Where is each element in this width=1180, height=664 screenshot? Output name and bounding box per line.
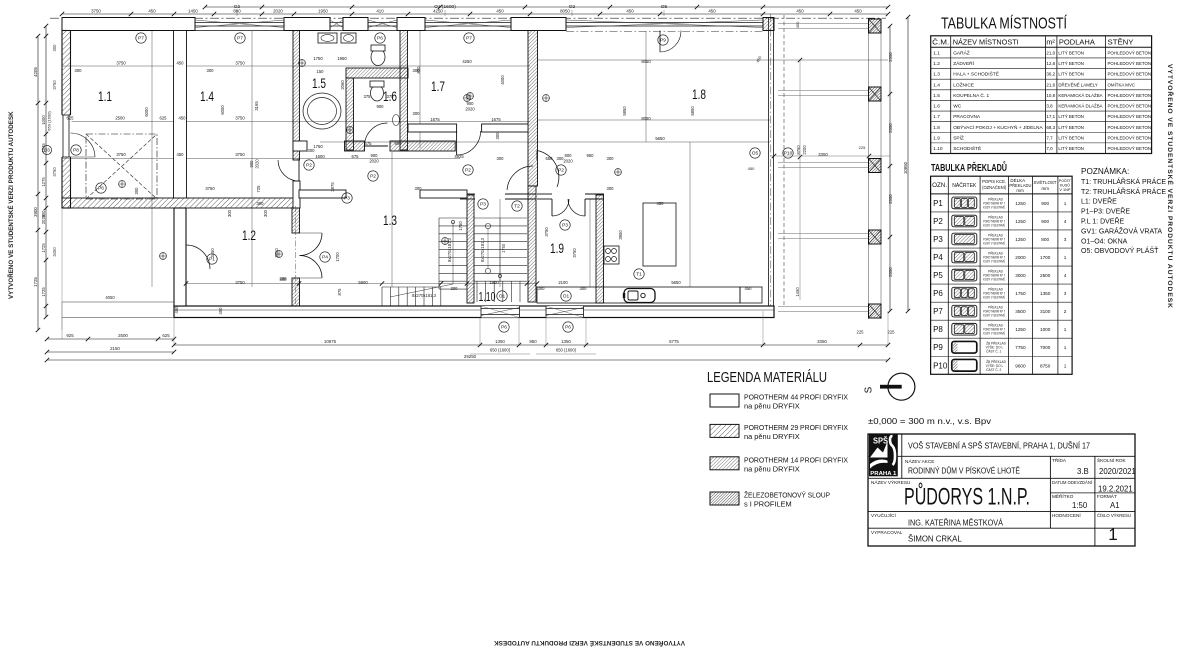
svg-text:17,1: 17,1 <box>1046 114 1055 119</box>
svg-text:POHLEDOVÝ BETON: POHLEDOVÝ BETON <box>1108 51 1152 56</box>
svg-text:1.5: 1.5 <box>312 75 326 91</box>
svg-text:KOUPELNA Č. 1: KOUPELNA Č. 1 <box>953 92 989 99</box>
svg-text:68,3: 68,3 <box>1046 125 1055 130</box>
svg-text:P8: P8 <box>73 148 79 154</box>
svg-text:3750: 3750 <box>116 61 126 66</box>
svg-text:1750: 1750 <box>1015 291 1026 296</box>
svg-text:POHLEDOVÝ BETON: POHLEDOVÝ BETON <box>1108 114 1152 119</box>
svg-text:KUSY V SESTAVĚ: KUSY V SESTAVĚ <box>983 240 1005 245</box>
svg-text:1.1: 1.1 <box>98 88 112 104</box>
svg-text:P2: P2 <box>370 174 376 180</box>
svg-text:1.10: 1.10 <box>933 146 943 152</box>
svg-text:1: 1 <box>1064 201 1067 206</box>
svg-text:3750: 3750 <box>235 116 245 121</box>
svg-text:2200: 2200 <box>802 145 807 155</box>
svg-text:1750: 1750 <box>501 243 506 253</box>
svg-text:T1: TRUHLÁŘSKÁ PRÁCE: T1: TRUHLÁŘSKÁ PRÁCE <box>1081 177 1166 186</box>
svg-text:300: 300 <box>75 68 83 73</box>
svg-text:GV1: GARÁŽOVÁ VRATA: GV1: GARÁŽOVÁ VRATA <box>1081 226 1162 235</box>
svg-text:650 (1600): 650 (1600) <box>47 111 52 131</box>
svg-text:1700: 1700 <box>335 252 340 262</box>
svg-text:2500: 2500 <box>118 333 128 338</box>
svg-text:725: 725 <box>256 185 261 193</box>
svg-text:1: 1 <box>1064 327 1067 332</box>
svg-text:s I PROFILEM: s I PROFILEM <box>744 500 792 509</box>
svg-text:3450: 3450 <box>210 248 215 258</box>
svg-text:3750: 3750 <box>91 9 101 14</box>
svg-text:2020: 2020 <box>465 107 475 112</box>
svg-text:na pěnu DRYFIX: na pěnu DRYFIX <box>744 402 800 411</box>
svg-text:450: 450 <box>854 9 862 14</box>
svg-text:2020/2021: 2020/2021 <box>1099 467 1136 476</box>
svg-text:6000: 6000 <box>144 107 149 117</box>
svg-text:10850: 10850 <box>903 161 908 174</box>
svg-text:TŘÍDA: TŘÍDA <box>1052 456 1067 463</box>
svg-text:6000: 6000 <box>220 105 225 115</box>
svg-text:21,6: 21,6 <box>1046 82 1055 87</box>
svg-text:ŠIMON CRKAL: ŠIMON CRKAL <box>908 535 962 544</box>
svg-text:1.4: 1.4 <box>200 88 214 104</box>
svg-text:7000: 7000 <box>1040 345 1051 350</box>
svg-text:1.7: 1.7 <box>933 114 940 120</box>
svg-text:P3: P3 <box>344 196 350 202</box>
svg-text:RODINNÝ DŮM V PÍSKOVÉ LHOTĚ: RODINNÝ DŮM V PÍSKOVÉ LHOTĚ <box>908 467 1020 476</box>
svg-text:KUSY V SESTAVĚ: KUSY V SESTAVĚ <box>983 331 1005 336</box>
svg-text:DATUM ODEVZDÁNÍ: DATUM ODEVZDÁNÍ <box>1052 479 1093 485</box>
svg-text:P7: P7 <box>237 36 243 42</box>
svg-text:O1: O1 <box>499 294 506 300</box>
svg-text:950: 950 <box>529 339 537 344</box>
svg-text:8050: 8050 <box>560 9 570 14</box>
svg-text:300: 300 <box>257 201 265 206</box>
svg-text:3900: 3900 <box>618 230 623 240</box>
svg-text:VYUČUJÍCÍ: VYUČUJÍCÍ <box>871 512 896 518</box>
svg-text:POZNÁMKA:: POZNÁMKA: <box>1081 166 1129 176</box>
svg-text:900: 900 <box>371 153 379 158</box>
svg-text:3900: 3900 <box>33 207 38 217</box>
svg-text:OZN.: OZN. <box>932 183 947 189</box>
svg-text:P3: P3 <box>562 223 568 229</box>
svg-text:3750: 3750 <box>235 152 245 157</box>
svg-text:POHLEDOVÝ BETON: POHLEDOVÝ BETON <box>1108 125 1152 130</box>
svg-text:2550: 2550 <box>888 267 893 277</box>
svg-text:36,2: 36,2 <box>1046 72 1055 77</box>
svg-text:1675: 1675 <box>430 117 440 122</box>
svg-text:3750: 3750 <box>116 152 126 157</box>
svg-text:OBÝVACÍ POKOJ + KUCHYŇ + JÍDEL: OBÝVACÍ POKOJ + KUCHYŇ + JÍDELNA <box>953 124 1043 131</box>
svg-text:ŠKOLNÍ ROK: ŠKOLNÍ ROK <box>1097 457 1127 463</box>
svg-text:2020: 2020 <box>273 9 283 14</box>
svg-text:29250: 29250 <box>464 354 477 359</box>
svg-text:21,0: 21,0 <box>1046 51 1055 56</box>
svg-text:P1–P3: DVEŘE: P1–P3: DVEŘE <box>1081 207 1130 216</box>
svg-text:P2: P2 <box>465 168 471 174</box>
svg-text:O3: O3 <box>44 148 50 153</box>
svg-text:150: 150 <box>317 69 325 74</box>
svg-text:1.2: 1.2 <box>933 61 940 67</box>
svg-text:PŘEKLADU: PŘEKLADU <box>1009 181 1031 188</box>
svg-text:300: 300 <box>227 209 232 217</box>
svg-text:300: 300 <box>134 187 139 195</box>
svg-text:TABULKA MÍSTNOSTÍ: TABULKA MÍSTNOSTÍ <box>941 14 1067 33</box>
svg-text:LITÝ BETON: LITÝ BETON <box>1058 146 1084 151</box>
svg-text:O5: O5 <box>752 151 759 157</box>
svg-text:1350: 1350 <box>561 339 571 344</box>
svg-text:300: 300 <box>495 132 500 140</box>
svg-text:1:50: 1:50 <box>1072 501 1088 510</box>
svg-text:650 (1600): 650 (1600) <box>556 348 577 353</box>
svg-text:1.7: 1.7 <box>431 78 445 94</box>
svg-text:1.3: 1.3 <box>933 72 940 78</box>
svg-text:3.B: 3.B <box>1077 467 1089 476</box>
svg-text:800: 800 <box>1041 237 1049 242</box>
svg-text:1750: 1750 <box>458 221 463 231</box>
svg-text:m²: m² <box>1046 38 1055 47</box>
svg-text:P9: P9 <box>933 343 943 352</box>
svg-text:P10: P10 <box>933 361 948 370</box>
svg-text:P8: P8 <box>933 325 943 334</box>
svg-text:1350: 1350 <box>495 339 505 344</box>
svg-text:4000: 4000 <box>500 75 505 85</box>
svg-text:L1: DVEŘE: L1: DVEŘE <box>1081 197 1117 206</box>
svg-text:POPIS KCE.: POPIS KCE. <box>982 179 1006 185</box>
svg-text:4250: 4250 <box>433 9 443 14</box>
svg-text:1675: 1675 <box>491 117 501 122</box>
svg-text:mm: mm <box>1042 186 1050 191</box>
svg-text:P2: P2 <box>933 217 943 226</box>
svg-text:POHLEDOVÝ BETON: POHLEDOVÝ BETON <box>1108 104 1152 109</box>
svg-text:ČÁST Č. 2: ČÁST Č. 2 <box>986 367 1001 372</box>
svg-text:450: 450 <box>657 201 665 206</box>
svg-text:OMÍTKA MVC: OMÍTKA MVC <box>1108 82 1136 87</box>
svg-text:800: 800 <box>233 9 241 14</box>
svg-text:Č.M.: Č.M. <box>932 38 949 47</box>
svg-text:650: 650 <box>546 156 554 161</box>
svg-text:1.2: 1.2 <box>242 227 256 243</box>
svg-text:NÁČRTEK: NÁČRTEK <box>952 182 977 189</box>
svg-text:4205: 4205 <box>33 67 38 77</box>
svg-text:300: 300 <box>580 286 588 291</box>
svg-text:VYTVOŘENO VE STUDENTSKÉ VERZI: VYTVOŘENO VE STUDENTSKÉ VERZI PRODUKTU A… <box>1166 64 1175 309</box>
svg-text:450: 450 <box>174 306 179 314</box>
svg-text:POROTHERM 14 PROFI DRYFIX: POROTHERM 14 PROFI DRYFIX <box>744 455 848 464</box>
svg-text:KUSY V SESTAVĚ: KUSY V SESTAVĚ <box>983 295 1005 300</box>
svg-text:900: 900 <box>395 141 403 146</box>
svg-text:VOŠ STAVEBNÍ A SPŠ STAVEBNÍ, P: VOŠ STAVEBNÍ A SPŠ STAVEBNÍ, PRAHA 1, DU… <box>908 442 1090 451</box>
svg-text:2: 2 <box>1064 309 1067 314</box>
svg-text:4: 4 <box>1064 273 1067 278</box>
svg-text:LITÝ BETON: LITÝ BETON <box>1058 114 1084 119</box>
svg-text:WC: WC <box>953 104 962 110</box>
svg-text:KERAMICKÁ DLAŽBA: KERAMICKÁ DLAŽBA <box>1058 93 1102 98</box>
svg-text:PRACOVNA: PRACOVNA <box>953 114 981 120</box>
svg-text:19.2.2021: 19.2.2021 <box>1098 485 1133 494</box>
svg-text:450: 450 <box>796 9 804 14</box>
svg-text:P6: P6 <box>98 186 104 192</box>
svg-text:P9: P9 <box>660 38 666 44</box>
svg-text:A1: A1 <box>1110 501 1120 510</box>
svg-text:mm: mm <box>1016 188 1024 193</box>
svg-text:3750: 3750 <box>235 61 245 66</box>
svg-text:V 1NP: V 1NP <box>1059 187 1070 192</box>
svg-text:450: 450 <box>496 9 504 14</box>
svg-text:5650: 5650 <box>671 280 681 285</box>
svg-text:3100: 3100 <box>1040 309 1051 314</box>
svg-text:300: 300 <box>538 286 546 291</box>
svg-text:3350: 3350 <box>817 339 827 344</box>
svg-text:T2: TRUHLÁŘSKÁ PRÁCE: T2: TRUHLÁŘSKÁ PRÁCE <box>1081 187 1166 196</box>
svg-text:VYTVOŘENO VE STUDENTSKÉ VERZI: VYTVOŘENO VE STUDENTSKÉ VERZI PRODUKTU A… <box>7 111 15 299</box>
svg-text:NÁZEV AKCE: NÁZEV AKCE <box>905 458 934 464</box>
svg-text:1.10: 1.10 <box>479 289 496 304</box>
svg-text:STĚNY: STĚNY <box>1108 38 1134 47</box>
svg-text:450: 450 <box>177 152 185 157</box>
svg-text:625: 625 <box>162 333 170 338</box>
svg-text:P6: P6 <box>565 325 571 331</box>
svg-text:2020: 2020 <box>41 214 46 224</box>
svg-text:P3: P3 <box>933 235 943 244</box>
svg-text:900: 900 <box>249 160 254 168</box>
svg-text:1600: 1600 <box>315 154 325 159</box>
svg-text:375: 375 <box>364 94 372 99</box>
svg-text:3000: 3000 <box>1015 273 1026 278</box>
svg-text:4250: 4250 <box>462 59 472 64</box>
svg-text:1: 1 <box>1108 525 1117 544</box>
svg-text:3: 3 <box>1064 237 1067 242</box>
svg-text:800: 800 <box>565 153 573 158</box>
svg-text:450: 450 <box>795 21 800 28</box>
svg-text:3500: 3500 <box>1015 309 1026 314</box>
svg-text:2000: 2000 <box>1015 255 1026 260</box>
svg-text:300: 300 <box>52 44 57 52</box>
svg-text:900: 900 <box>467 101 475 106</box>
svg-text:1250: 1250 <box>1015 219 1026 224</box>
svg-text:450: 450 <box>177 61 185 66</box>
svg-text:300: 300 <box>280 277 288 282</box>
svg-text:450: 450 <box>708 9 716 14</box>
svg-text:P2: P2 <box>558 168 564 174</box>
svg-text:ŽELEZOBETONOVÝ SLOUP: ŽELEZOBETONOVÝ SLOUP <box>744 491 830 500</box>
svg-text:225: 225 <box>857 330 865 335</box>
svg-text:KUSY V SESTAVĚ: KUSY V SESTAVĚ <box>983 204 1005 209</box>
svg-text:5650: 5650 <box>655 136 665 141</box>
svg-text:P4: P4 <box>933 253 943 262</box>
svg-text:T1: T1 <box>636 272 642 278</box>
svg-text:925: 925 <box>66 333 74 338</box>
svg-text:1.1: 1.1 <box>933 51 940 57</box>
svg-text:2100: 2100 <box>558 280 568 285</box>
svg-text:1275: 1275 <box>41 177 46 187</box>
svg-text:2550: 2550 <box>888 194 893 204</box>
svg-text:1450: 1450 <box>795 287 800 297</box>
svg-text:1.5: 1.5 <box>933 93 940 99</box>
svg-text:1.6: 1.6 <box>933 104 940 110</box>
svg-text:5850: 5850 <box>622 106 627 116</box>
svg-text:800: 800 <box>416 66 421 74</box>
svg-text:4925: 4925 <box>454 154 464 159</box>
svg-text:4050: 4050 <box>105 295 115 300</box>
svg-text:300: 300 <box>413 111 421 116</box>
svg-text:P6: P6 <box>933 289 943 298</box>
svg-text:3750: 3750 <box>52 167 57 177</box>
svg-text:HODNOCENÍ: HODNOCENÍ <box>1052 512 1081 518</box>
svg-text:O5: OBVODOVÝ PLÁŠŤ: O5: OBVODOVÝ PLÁŠŤ <box>1081 246 1159 255</box>
svg-text:S: S <box>864 386 875 393</box>
svg-text:P1: P1 <box>933 199 943 208</box>
svg-text:9600: 9600 <box>1015 363 1026 368</box>
svg-text:3750: 3750 <box>205 186 215 191</box>
svg-text:VYTVOŘENO VE STUDENTSKÉ VERZI: VYTVOŘENO VE STUDENTSKÉ VERZI PRODUKTU A… <box>494 639 685 648</box>
svg-text:1.9: 1.9 <box>933 135 940 141</box>
svg-text:1250: 1250 <box>1015 327 1026 332</box>
svg-text:3350: 3350 <box>818 152 828 157</box>
svg-text:900: 900 <box>1041 201 1049 206</box>
svg-text:5850: 5850 <box>690 106 695 116</box>
svg-text:KUSY V SESTAVĚ: KUSY V SESTAVĚ <box>983 222 1005 227</box>
svg-text:8050: 8050 <box>641 116 651 121</box>
svg-text:P2: P2 <box>306 163 312 169</box>
svg-text:P7: P7 <box>933 307 943 316</box>
svg-text:1.4: 1.4 <box>933 82 940 88</box>
svg-text:POHLEDOVÝ BETON: POHLEDOVÝ BETON <box>1108 146 1152 151</box>
svg-text:(OZNAČENÍ): (OZNAČENÍ) <box>982 184 1006 191</box>
svg-text:1350: 1350 <box>1040 291 1051 296</box>
svg-text:950: 950 <box>587 153 595 158</box>
svg-text:2500: 2500 <box>1040 273 1051 278</box>
svg-text:KUSY V SESTAVĚ: KUSY V SESTAVĚ <box>983 259 1005 264</box>
svg-text:2500: 2500 <box>115 116 125 121</box>
svg-text:450: 450 <box>748 166 755 171</box>
svg-text:3750: 3750 <box>572 248 577 258</box>
svg-text:5900: 5900 <box>358 280 368 285</box>
svg-text:1.3: 1.3 <box>383 212 397 228</box>
svg-text:PODLAHA: PODLAHA <box>1059 38 1096 47</box>
svg-text:POHLEDOVÝ BETON: POHLEDOVÝ BETON <box>1108 135 1152 140</box>
svg-text:300: 300 <box>497 156 505 161</box>
svg-text:KUSY V SESTAVĚ: KUSY V SESTAVĚ <box>983 277 1005 282</box>
svg-text:LITÝ BETON: LITÝ BETON <box>1058 135 1084 140</box>
svg-text:1950: 1950 <box>337 56 347 61</box>
svg-text:2020: 2020 <box>255 159 260 169</box>
svg-text:FORMÁT: FORMÁT <box>1097 493 1117 499</box>
svg-text:1: 1 <box>1064 345 1067 350</box>
svg-text:8050: 8050 <box>641 59 651 64</box>
svg-text:12,6: 12,6 <box>1046 61 1055 66</box>
svg-text:P7: P7 <box>138 36 144 42</box>
svg-text:2150: 2150 <box>110 346 120 351</box>
svg-text:ING. KATEŘINA MĚSTKOVÁ: ING. KATEŘINA MĚSTKOVÁ <box>908 519 1004 528</box>
svg-text:1725: 1725 <box>41 243 46 253</box>
svg-text:3750: 3750 <box>544 227 549 237</box>
svg-text:7750: 7750 <box>1015 345 1026 350</box>
svg-text:625: 625 <box>67 116 75 121</box>
svg-text:P6: P6 <box>501 325 507 331</box>
svg-text:PŮDORYS 1.N.P.: PŮDORYS 1.N.P. <box>904 482 1030 511</box>
svg-text:1700: 1700 <box>1040 255 1051 260</box>
svg-text:NÁZEV MÍSTNOSTI: NÁZEV MÍSTNOSTI <box>953 38 1019 47</box>
svg-text:ČÍSLO VÝKRESU: ČÍSLO VÝKRESU <box>1097 512 1131 518</box>
svg-text:450: 450 <box>626 9 634 14</box>
svg-text:300: 300 <box>415 186 423 191</box>
svg-text:3750: 3750 <box>52 80 57 90</box>
svg-text:POROTHERM 44 PROFI DRYFIX: POROTHERM 44 PROFI DRYFIX <box>744 393 848 402</box>
svg-text:225: 225 <box>859 145 866 150</box>
svg-text:1900: 1900 <box>489 280 499 285</box>
svg-text:10,8: 10,8 <box>1046 93 1055 98</box>
svg-text:875: 875 <box>337 288 342 296</box>
svg-text:450: 450 <box>745 286 753 291</box>
svg-text:SPŠ: SPŠ <box>873 437 889 446</box>
svg-text:1450: 1450 <box>188 9 198 14</box>
svg-text:O1: O1 <box>563 294 570 300</box>
svg-text:POHLEDOVÝ BETON: POHLEDOVÝ BETON <box>1108 61 1152 66</box>
svg-text:na pěnu DRYFIX: na pěnu DRYFIX <box>744 464 800 473</box>
svg-text:450: 450 <box>148 9 156 14</box>
svg-text:3: 3 <box>1064 291 1067 296</box>
svg-text:3,8: 3,8 <box>1046 104 1053 109</box>
svg-text:225: 225 <box>888 330 896 335</box>
svg-text:POHLEDOVÝ BETON: POHLEDOVÝ BETON <box>1108 93 1152 98</box>
svg-text:3750: 3750 <box>235 280 245 285</box>
svg-text:P4: P4 <box>322 255 328 261</box>
svg-text:1250: 1250 <box>1015 201 1026 206</box>
svg-text:2020: 2020 <box>369 159 379 164</box>
svg-text:2550: 2550 <box>888 123 893 133</box>
svg-text:2020: 2020 <box>563 159 573 164</box>
svg-text:8750: 8750 <box>1040 363 1051 368</box>
svg-text:650 (1600): 650 (1600) <box>490 348 511 353</box>
svg-text:1250: 1250 <box>1015 237 1026 242</box>
svg-text:LITÝ BETON: LITÝ BETON <box>1058 72 1084 77</box>
svg-text:8x270x181,3: 8x270x181,3 <box>480 237 485 262</box>
svg-text:VYPRACOVAL: VYPRACOVAL <box>871 530 903 535</box>
svg-text:300: 300 <box>308 148 316 153</box>
svg-text:P6: P6 <box>377 36 383 42</box>
svg-text:TABULKA PŘEKLADŮ: TABULKA PŘEKLADŮ <box>931 160 1007 174</box>
svg-text:300: 300 <box>263 209 268 217</box>
svg-text:1000: 1000 <box>1040 327 1051 332</box>
svg-text:LITÝ BETON: LITÝ BETON <box>1058 61 1084 66</box>
svg-text:na pěnu DRYFIX: na pěnu DRYFIX <box>744 432 800 441</box>
svg-text:1750: 1750 <box>313 144 323 149</box>
svg-text:LEGENDA MATERIÁLU: LEGENDA MATERIÁLU <box>707 369 827 386</box>
svg-text:POROTHERM 29 PROFI DRYFIX: POROTHERM 29 PROFI DRYFIX <box>744 423 848 432</box>
svg-text:3450: 3450 <box>52 247 57 257</box>
svg-text:625: 625 <box>160 116 168 121</box>
svg-text:6775: 6775 <box>669 339 679 344</box>
svg-text:1: 1 <box>1064 363 1067 368</box>
svg-text:7,7: 7,7 <box>1046 135 1053 140</box>
svg-text:375: 375 <box>387 94 395 99</box>
svg-text:300: 300 <box>607 156 615 161</box>
svg-text:2875: 2875 <box>330 182 335 192</box>
svg-text:P.L 1: DVEŘE: P.L 1: DVEŘE <box>1081 217 1125 226</box>
svg-text:KERAMICKÁ DLAŽBA: KERAMICKÁ DLAŽBA <box>1058 104 1102 109</box>
svg-text:MĚŘÍTKO: MĚŘÍTKO <box>1052 492 1074 499</box>
svg-text:410: 410 <box>376 9 384 14</box>
svg-text:1725: 1725 <box>33 277 38 287</box>
svg-text:1.8: 1.8 <box>692 86 706 102</box>
svg-text:1750: 1750 <box>313 56 323 61</box>
svg-text:3450: 3450 <box>274 248 279 258</box>
svg-text:1950: 1950 <box>318 9 328 14</box>
svg-text:1.8: 1.8 <box>933 125 940 131</box>
svg-text:1: 1 <box>1064 255 1067 260</box>
svg-text:2550: 2550 <box>888 52 893 62</box>
svg-text:8x270x181,3: 8x270x181,3 <box>412 293 437 298</box>
svg-text:LITÝ BETON: LITÝ BETON <box>1058 125 1084 130</box>
svg-text:900: 900 <box>1041 219 1049 224</box>
